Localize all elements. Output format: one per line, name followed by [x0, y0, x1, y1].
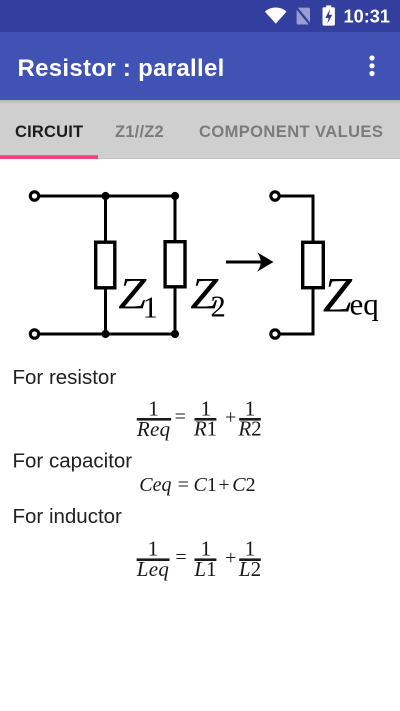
svg-text:COMPONENT VALUES: COMPONENT VALUES [199, 123, 383, 141]
svg-text:For capacitor: For capacitor [13, 450, 133, 473]
svg-text:Req: Req [136, 417, 171, 441]
svg-text:C2: C2 [232, 474, 255, 496]
svg-text:+: + [218, 474, 229, 496]
svg-text:=: = [175, 406, 186, 428]
svg-text:R1: R1 [193, 417, 217, 441]
svg-text:C1: C1 [194, 474, 217, 496]
svg-text:1: 1 [143, 289, 159, 324]
svg-text:eq: eq [350, 286, 379, 321]
svg-text:+: + [225, 407, 236, 429]
svg-text:Z: Z [323, 267, 353, 323]
svg-text:+: + [225, 547, 236, 569]
svg-text:Ceq: Ceq [139, 474, 171, 496]
svg-text:Z1//Z2: Z1//Z2 [115, 123, 164, 141]
svg-text:=: = [175, 547, 186, 569]
svg-text:10:31: 10:31 [344, 7, 391, 27]
svg-text:Resistor : parallel: Resistor : parallel [18, 55, 225, 82]
svg-text:L2: L2 [238, 557, 261, 581]
svg-text:R2: R2 [237, 417, 261, 441]
svg-text:2: 2 [210, 289, 226, 324]
svg-text:For resistor: For resistor [13, 366, 117, 389]
svg-text:CIRCUIT: CIRCUIT [15, 123, 83, 141]
svg-text:=: = [178, 474, 189, 496]
svg-text:For inductor: For inductor [13, 505, 123, 528]
svg-text:Leq: Leq [136, 557, 170, 581]
svg-text:L1: L1 [193, 557, 216, 581]
